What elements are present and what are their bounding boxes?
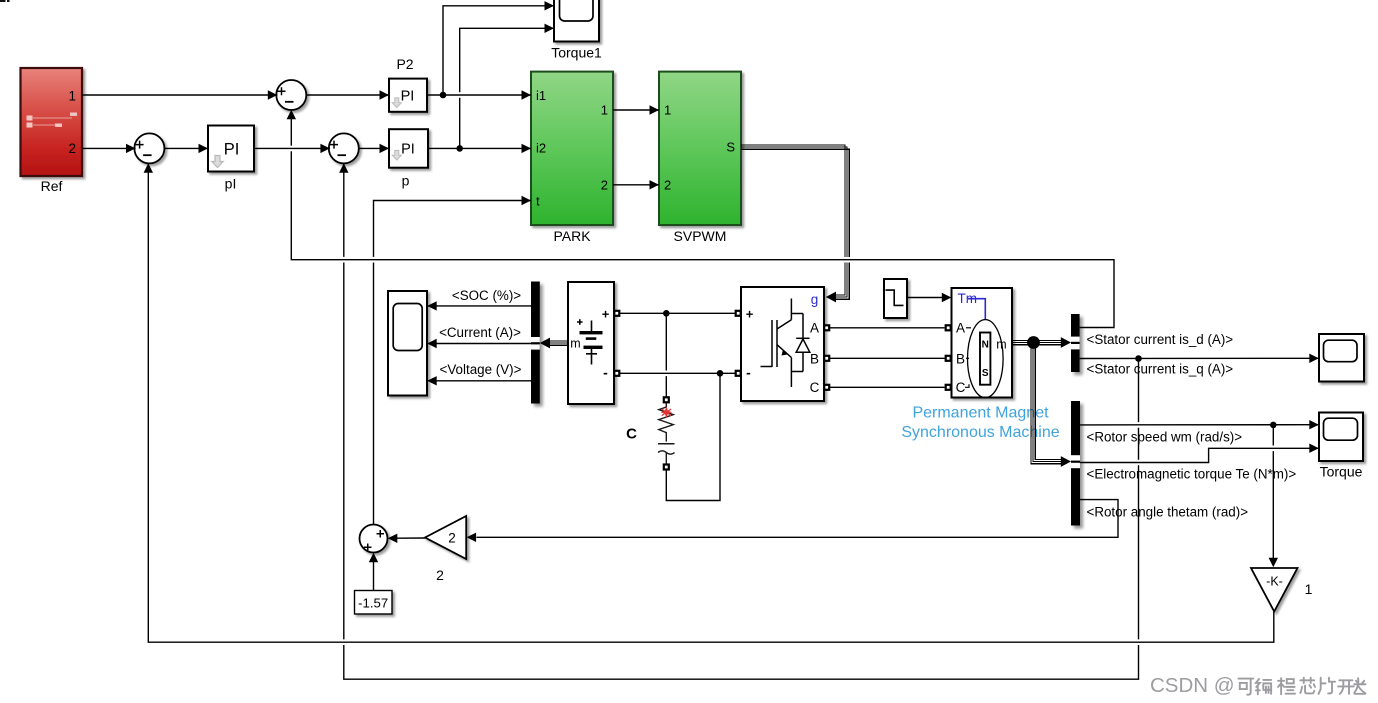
wire sum S4 output up and right to PARK t [374,201,532,525]
top-left corner artifact mark [0,0,10,2]
wire PARK out1 to SVPWM in1 [613,109,659,111]
universal bridge converter block [741,287,824,401]
converter A port [823,324,830,331]
svg-text:A: A [956,321,965,336]
wire branch C bottom loop [666,373,720,500]
svg-text:PARK: PARK [553,228,591,244]
bus selector bar 2 (speed/torque/angle) [1071,401,1080,526]
svg-text:<Stator current is_d (A)>: <Stator current is_d (A)> [1087,332,1234,347]
wire converter A to PMSM A [830,327,945,329]
node battery plus tap [663,310,670,317]
svg-text:m: m [996,338,1006,352]
gain block -K- (triangle pointing down) [1251,568,1298,612]
svg-text:-: - [603,365,608,381]
svg-text:g: g [811,292,819,307]
svg-text:A: A [810,321,819,336]
svg-text:SVPWM: SVPWM [674,228,727,244]
wire sum S1 to PI P2 [306,94,390,96]
branch C bottom port [663,463,670,470]
watermark CSDN @ plus vector CJK glyphs [1150,674,1366,697]
svg-text:C: C [810,380,820,395]
svg-text:<Current (A)>: <Current (A)> [439,325,521,340]
wire bus bar to scope Voltage [428,380,532,382]
wire gain -K- output down and left to sum S2 [148,164,1274,642]
wire wm: bus selector 2 out1 to scope Torque in1 [1080,424,1318,426]
gain block 2 (triangle pointing left) [425,516,466,559]
svg-text:C: C [956,380,966,395]
svg-text:2: 2 [601,178,608,193]
wire constant -1.57 up to sum S4 [373,557,375,591]
bus selector bar 1 (stator currents) [1071,314,1080,372]
PI controller block pI (speed regulator) [208,126,254,172]
svg-text:PI: PI [401,142,415,158]
svg-text:P2: P2 [396,56,413,72]
bus selector bar (battery m demux, black) [531,282,540,404]
bus wire SVPWM S to converter g (3-line) [741,145,849,299]
battery block [568,282,614,404]
bus wire m junction down to bus selector 2 (3-line) [1031,345,1062,464]
svg-text:<Stator current is_q (A)>: <Stator current is_q (A)> [1087,362,1234,377]
branch C top port [663,396,670,403]
wire sum S3 to PI p [358,147,389,149]
PMSM A port [945,324,952,331]
PI controller block P2 (d-axis current regulator) [389,79,427,112]
svg-text:1: 1 [68,89,76,104]
svg-text:<SOC (%)>: <SOC (%)> [452,288,521,303]
wire Ref out1 to sum S1 [82,94,278,96]
svg-text:p: p [402,173,410,189]
svg-text:<Rotor angle thetam (rad)>: <Rotor angle thetam (rad)> [1087,504,1249,519]
wire p to PARK i2 [428,147,531,149]
svg-text:i1: i1 [536,88,546,103]
svg-text:Torque1: Torque1 [551,45,602,61]
step source block Tm [884,279,907,318]
svg-text:PI: PI [401,89,415,105]
svg-text:m: m [570,337,580,351]
svg-text:1: 1 [1305,581,1313,597]
wire P2 output tap up to scope Torque1 in1 [443,6,554,95]
PMSM B port [945,355,952,362]
wire bus bar to scope SOC [428,305,532,307]
svg-text:PI: PI [224,141,240,159]
wire P2 to PARK i1 [427,94,531,96]
svg-text:+: + [602,307,610,322]
svg-text:N: N [982,340,989,351]
wire is_d feedback: bus selector 1 out1 up and left to sum S1 [291,113,1114,328]
svg-text:<Voltage (V)>: <Voltage (V)> [440,362,522,377]
scope block is_q (top right) [1319,334,1364,382]
wire gain 2 to sum S4 [397,537,425,539]
scope block Torque1 (top, partially cut off) [554,0,599,42]
svg-text:+: + [746,306,754,321]
wire step to PMSM Tm [907,297,942,299]
wire wm down to gain -K- [1272,425,1274,446]
battery + port [613,310,620,317]
svg-text:-: - [746,365,751,381]
svg-text:C: C [626,426,637,443]
battery - port [613,370,620,377]
red measurement star on branch C [661,406,673,418]
converter C port [823,384,830,391]
wire pI to sum S3 [254,147,330,149]
wire is_q: bus selector 1 out2 to scope [1080,357,1318,359]
wire converter C to PMSM C [830,386,945,388]
source block Ref (red reference source) [21,68,83,176]
bus wire battery m to measurement bar (3-line) [547,341,568,345]
converter - port [735,370,742,377]
svg-text:2: 2 [448,530,456,545]
svg-text:i2: i2 [536,141,546,156]
wire bus bar to scope Current [428,343,532,345]
sum junction S4 (theta offset adder) [360,525,388,553]
svg-text:1: 1 [664,103,671,118]
svg-text:1: 1 [601,103,608,118]
svg-text:Permanent Magnet: Permanent Magnet [912,405,1049,422]
node battery minus tap [717,370,724,377]
wire p output tap up to scope Torque1 in2 [460,28,554,148]
node p output junction [456,145,463,152]
node wm junction [1270,422,1277,429]
wire thetam: bus selector 2 out3 to gain 2 [477,500,1119,538]
PMSM C port [945,384,952,391]
sum junction S1 (d-axis current error) [276,80,306,110]
svg-text:S: S [982,368,989,379]
wire Ref out2 to sum S2 [82,147,136,149]
wire Te: bus selector 2 out2 to scope Torque in2 [1080,448,1318,462]
wire is_q feedback down and left to sum S3 [344,164,1139,679]
PMSM machine block [952,288,1013,398]
svg-text:-K-: -K- [1266,575,1283,589]
wire sum S2 to PI pI [164,147,208,149]
node is_q junction [1135,355,1142,362]
svg-text:<Electromagnetic torque Te (N*: <Electromagnetic torque Te (N*m)> [1087,467,1297,482]
converter B port [823,355,830,362]
svg-text:pI: pI [225,176,237,192]
converter + port [735,310,742,317]
PI controller block p (q-axis current regulator) [389,129,428,168]
sum junction S2 (speed error) [134,133,164,163]
svg-text:<Rotor speed wm (rad/s)>: <Rotor speed wm (rad/s)> [1087,429,1243,444]
svg-text:CSDN @: CSDN @ [1150,674,1235,697]
constant block -1.57 [355,591,393,615]
svg-text:B: B [956,351,965,366]
svg-text:2: 2 [664,178,671,193]
svg-text:-1.57: -1.57 [358,596,388,611]
wire PARK out2 to SVPWM in2 [613,184,659,186]
wire converter B to PMSM B [830,357,945,359]
svg-text:Synchronous Machine: Synchronous Machine [901,424,1059,441]
svg-text:2: 2 [68,141,76,156]
subsystem block SVPWM (green) [659,72,741,225]
sum junction S3 (q-axis current error) [329,133,359,163]
subsystem block PARK (park transform, green) [531,72,613,225]
svg-text:2: 2 [436,567,444,583]
svg-text:Torque: Torque [1320,464,1363,480]
svg-text:Ref: Ref [41,178,63,194]
wire battery + to converter + with tap to branch C [620,312,735,314]
scope block (battery measurements, mirrored) [388,291,427,396]
node m bus junction (large) [1027,336,1040,349]
svg-text:B: B [810,351,819,366]
node P2 output junction [440,92,447,99]
wire battery - to converter - [620,372,735,374]
svg-text:S: S [726,140,735,155]
series RLC branch C (resistor + capacitor) [658,403,675,464]
svg-text:t: t [536,194,540,209]
bus wire PMSM m to bus selector 1 (3-line) [1013,340,1063,344]
scope block Torque (right) [1319,413,1363,462]
